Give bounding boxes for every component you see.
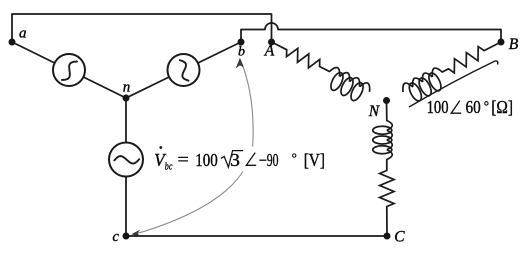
- svg-text:60: 60: [466, 97, 481, 117]
- svg-text:100: 100: [427, 97, 449, 117]
- svg-text:N: N: [368, 103, 381, 120]
- svg-text:100: 100: [195, 150, 218, 170]
- svg-text:C: C: [394, 228, 405, 245]
- svg-text:90: 90: [267, 150, 279, 170]
- svg-text:B: B: [509, 36, 519, 53]
- svg-text:A: A: [264, 43, 275, 60]
- svg-text:n: n: [123, 80, 131, 96]
- svg-text:[V]: [V]: [304, 150, 325, 170]
- svg-text:b: b: [238, 45, 245, 60]
- svg-text:bc: bc: [165, 160, 173, 172]
- svg-text:a: a: [19, 26, 27, 42]
- svg-text:[Ω]: [Ω]: [491, 97, 513, 117]
- svg-text:=: =: [178, 150, 189, 169]
- svg-text:c: c: [112, 229, 119, 245]
